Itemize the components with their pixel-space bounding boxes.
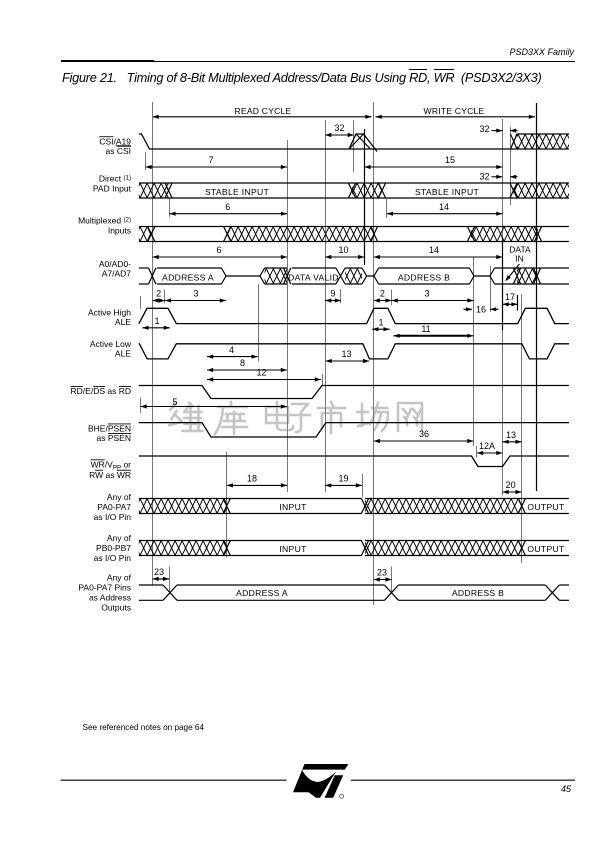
svg-text:23: 23 <box>154 567 164 577</box>
svg-text:1: 1 <box>154 316 159 326</box>
svg-text:as I/O Pin: as I/O Pin <box>94 553 132 563</box>
svg-text:STABLE INPUT: STABLE INPUT <box>415 187 480 197</box>
svg-text:A7/AD7: A7/AD7 <box>102 269 132 279</box>
svg-text:11: 11 <box>421 324 430 334</box>
svg-text:4: 4 <box>229 345 234 355</box>
svg-text:2: 2 <box>156 289 161 299</box>
svg-text:Direct (1): Direct (1) <box>99 174 131 184</box>
svg-text:32: 32 <box>479 171 489 181</box>
svg-text:DATA VALID: DATA VALID <box>288 273 339 283</box>
svg-text:Any of: Any of <box>107 533 132 543</box>
svg-text:32: 32 <box>479 124 489 134</box>
svg-text:ADDRESS B: ADDRESS B <box>398 273 450 283</box>
svg-text:20: 20 <box>506 480 516 490</box>
svg-text:READ CYCLE: READ CYCLE <box>235 106 292 116</box>
svg-text:3: 3 <box>424 289 429 299</box>
svg-text:Active High: Active High <box>88 308 131 318</box>
svg-text:Inputs: Inputs <box>108 225 131 235</box>
svg-text:Any of: Any of <box>107 492 132 502</box>
svg-text:3: 3 <box>193 289 198 299</box>
svg-text:16: 16 <box>476 304 486 314</box>
svg-text:6: 6 <box>216 245 221 255</box>
svg-text:ADDRESS A: ADDRESS A <box>162 273 214 283</box>
svg-text:ALE: ALE <box>115 349 131 359</box>
svg-text:as CSI: as CSI <box>105 146 131 156</box>
svg-text:2: 2 <box>380 289 385 299</box>
svg-text:WRITE CYCLE: WRITE CYCLE <box>424 106 485 116</box>
svg-text:as PSEN: as PSEN <box>97 433 132 443</box>
svg-text:ADDRESS B: ADDRESS B <box>452 588 504 598</box>
svg-text:Active Low: Active Low <box>90 339 132 349</box>
svg-text:PA0-PA7: PA0-PA7 <box>97 502 131 512</box>
svg-text:STABLE INPUT: STABLE INPUT <box>205 187 270 197</box>
svg-text:INPUT: INPUT <box>279 502 307 512</box>
svg-text:18: 18 <box>247 474 257 484</box>
svg-text:PAD Input: PAD Input <box>93 183 132 193</box>
svg-text:IN: IN <box>515 254 524 264</box>
svg-text:14: 14 <box>439 202 449 212</box>
svg-text:19: 19 <box>338 474 348 484</box>
svg-text:PA0-PA7 Pins: PA0-PA7 Pins <box>78 582 131 592</box>
svg-text:8: 8 <box>240 358 245 368</box>
svg-text:23: 23 <box>377 568 387 578</box>
svg-text:RW as WR: RW as WR <box>89 470 131 480</box>
svg-text:10: 10 <box>338 245 348 255</box>
svg-text:1: 1 <box>378 317 383 327</box>
svg-text:Multiplexed (2): Multiplexed (2) <box>78 216 131 226</box>
svg-text:BHE/PSEN: BHE/PSEN <box>88 424 131 434</box>
svg-text:CSI/A19: CSI/A19 <box>99 136 131 146</box>
svg-text:13: 13 <box>506 430 516 440</box>
svg-text:ADDRESS A: ADDRESS A <box>236 588 288 598</box>
svg-text:as Address: as Address <box>89 592 131 602</box>
svg-text:5: 5 <box>172 397 177 407</box>
svg-text:A0/AD0-: A0/AD0- <box>99 259 131 269</box>
svg-text:32: 32 <box>334 123 344 133</box>
svg-text:12A: 12A <box>479 441 495 451</box>
svg-text:Outputs: Outputs <box>101 602 131 612</box>
svg-text:9: 9 <box>330 289 335 299</box>
svg-text:7: 7 <box>208 155 213 165</box>
svg-text:13: 13 <box>341 349 351 359</box>
svg-text:PB0-PB7: PB0-PB7 <box>96 543 131 553</box>
svg-text:6: 6 <box>225 202 230 212</box>
svg-text:OUTPUT: OUTPUT <box>527 502 565 512</box>
svg-text:RD/E/DS as RD: RD/E/DS as RD <box>71 386 131 396</box>
svg-text:17: 17 <box>505 292 515 302</box>
svg-text:ALE: ALE <box>115 317 131 327</box>
svg-text:12: 12 <box>256 368 266 378</box>
svg-text:15: 15 <box>445 155 455 165</box>
svg-text:OUTPUT: OUTPUT <box>527 544 565 554</box>
svg-text:as I/O Pin: as I/O Pin <box>94 512 132 522</box>
svg-text:36: 36 <box>419 429 429 439</box>
svg-text:Any of: Any of <box>107 572 132 582</box>
svg-text:14: 14 <box>429 245 439 255</box>
svg-text:INPUT: INPUT <box>279 544 307 554</box>
